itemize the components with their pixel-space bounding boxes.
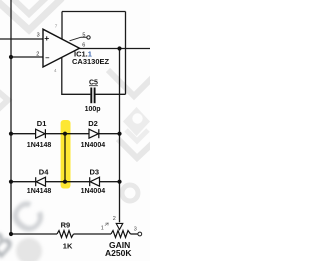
svg-text:1N4004: 1N4004 [81, 188, 106, 195]
svg-text:4: 4 [54, 68, 57, 73]
svg-text:1N4148: 1N4148 [27, 188, 52, 195]
wire feedback vertical [125, 12, 127, 95]
svg-text:D3: D3 [90, 168, 100, 177]
diode D4 [36, 177, 46, 186]
node pin2 junction [9, 55, 13, 59]
svg-text:C: C [0, 190, 55, 244]
resistor R9 [57, 231, 74, 238]
svg-text:A250K: A250K [105, 248, 132, 258]
wire pin2 input [11, 56, 43, 58]
node row1 right [117, 132, 121, 136]
potentiometer wiper arrow [116, 223, 123, 229]
svg-text:3: 3 [37, 33, 40, 39]
svg-text:R9: R9 [61, 220, 71, 229]
wire left rail [11, 0, 57, 234]
wire right rail [119, 49, 121, 223]
svg-text:C5: C5 [89, 79, 98, 86]
op-amp IC1.1 triangle [43, 29, 80, 67]
pin 5 stub and open terminal [70, 36, 91, 41]
svg-text:D2: D2 [88, 119, 98, 128]
svg-text:+: + [44, 33, 49, 43]
svg-text:1: 1 [101, 226, 104, 232]
svg-text:1N4004: 1N4004 [81, 142, 106, 149]
diode D1 [36, 129, 46, 138]
wire output pin6 [80, 48, 151, 50]
node row2 right [117, 180, 121, 184]
node output junction [117, 46, 121, 50]
node row1 left [9, 132, 13, 136]
potentiometer GAIN A250K element [111, 231, 131, 238]
node row2 left [9, 180, 13, 184]
svg-text:2: 2 [36, 52, 39, 58]
diode D3 [90, 177, 100, 186]
svg-text:–: – [45, 53, 49, 62]
node row1 center [63, 132, 67, 136]
pot pin 1 mark [105, 223, 109, 226]
svg-text:6: 6 [82, 43, 85, 49]
highlight marker over center link [61, 120, 71, 189]
wire C5 right [96, 93, 126, 95]
svg-text:D1: D1 [37, 119, 47, 128]
diode D2 [89, 129, 99, 138]
svg-text:1N4148: 1N4148 [27, 142, 52, 149]
svg-text:CA3130EZ: CA3130EZ [72, 57, 110, 66]
svg-text:1K: 1K [63, 242, 73, 251]
svg-text:100p: 100p [85, 106, 101, 113]
wire diode row 1 [11, 133, 120, 135]
wire bottom row [74, 233, 112, 235]
node row2 center [63, 180, 67, 184]
svg-text:2: 2 [113, 216, 116, 222]
svg-text:7: 7 [55, 23, 58, 28]
wire diode row 2 [11, 181, 120, 183]
wire pin3 input [0, 38, 43, 40]
svg-text:3: 3 [134, 227, 137, 233]
svg-text:5: 5 [82, 32, 85, 38]
wire feedback top [62, 11, 126, 13]
svg-text:D4: D4 [39, 168, 49, 177]
capacitor C5 [91, 88, 94, 104]
potentiometer terminal 3 open circle [138, 232, 142, 236]
wire pin7 supply [61, 12, 63, 40]
wire pin4 [62, 57, 91, 94]
wire center link [64, 134, 66, 182]
node bottom left corner [9, 232, 13, 236]
